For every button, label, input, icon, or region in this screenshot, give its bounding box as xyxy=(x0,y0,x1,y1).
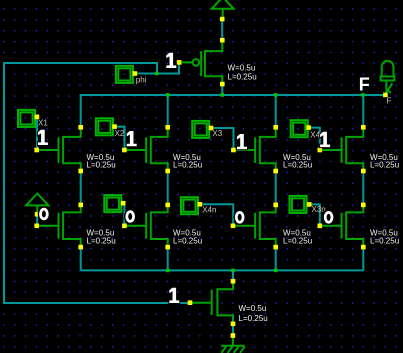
svg-text:L=0.25u: L=0.25u xyxy=(283,237,312,246)
svg-text:W=0.5u: W=0.5u xyxy=(239,304,267,313)
svg-text:L=0.25u: L=0.25u xyxy=(173,237,202,246)
svg-text:F: F xyxy=(359,75,370,95)
svg-text:F: F xyxy=(387,96,392,105)
svg-text:X2: X2 xyxy=(115,129,125,138)
svg-text:X1: X1 xyxy=(38,118,48,127)
svg-text:X4n: X4n xyxy=(202,206,216,215)
svg-text:L=0.25u: L=0.25u xyxy=(173,161,202,170)
svg-text:phi: phi xyxy=(136,75,147,84)
svg-text:L=0.25u: L=0.25u xyxy=(239,314,268,323)
svg-text:L=0.25u: L=0.25u xyxy=(370,161,399,170)
svg-text:L=0.25u: L=0.25u xyxy=(87,161,116,170)
svg-text:L=0.25u: L=0.25u xyxy=(228,72,257,81)
svg-text:X3n: X3n xyxy=(312,205,326,214)
svg-text:L=0.25u: L=0.25u xyxy=(87,237,116,246)
svg-text:L=0.25u: L=0.25u xyxy=(370,237,399,246)
svg-text:L=0.25u: L=0.25u xyxy=(283,161,312,170)
svg-text:X3: X3 xyxy=(212,129,222,138)
svg-text:W=0.5u: W=0.5u xyxy=(228,64,256,73)
svg-text:X4: X4 xyxy=(310,131,320,140)
